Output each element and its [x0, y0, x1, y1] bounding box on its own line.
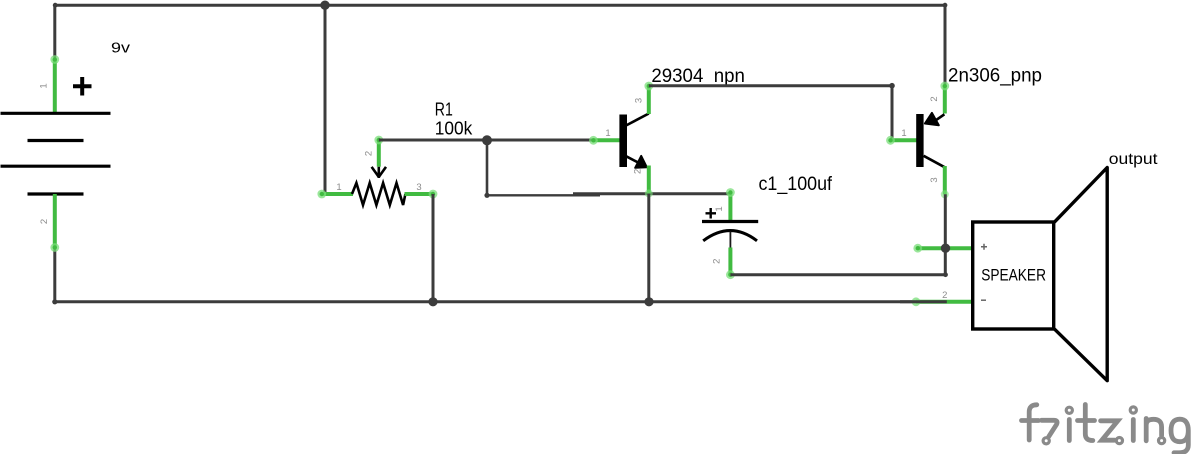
Q2 base pin 1 leg: [891, 138, 921, 142]
Q2 top diagonal: [934, 114, 944, 121]
speaker box: [973, 222, 1054, 329]
battery plate short bottom: [28, 192, 84, 195]
logo letter r: [1042, 420, 1058, 436]
battery pin 2 leg: [53, 194, 57, 248]
wire battery pin1 to top rail: [53, 5, 56, 59]
logo letter z: [1101, 421, 1118, 440]
Q1 base pin 1 leg: [593, 138, 624, 142]
capacitor C1 c1_100uf: [702, 174, 833, 279]
R1 wiper pin 2 leg: [377, 140, 381, 167]
svg-text:R1: R1: [435, 100, 453, 120]
wire R1 pin1 vertical from top rail: [324, 5, 327, 194]
svg-text:1: 1: [605, 128, 610, 139]
R1 wiper arrow: [372, 167, 386, 178]
svg-text:3: 3: [634, 98, 645, 103]
wire R1 pin3 to bottom rail: [432, 194, 435, 302]
wire Q1 collector to Q2 base (horizontal): [649, 84, 892, 87]
wire Q2 base vertical: [891, 86, 894, 141]
battery plate short: [28, 139, 84, 142]
logo letter z ring: [1116, 438, 1122, 444]
wire Q1 emitter down to bottom rail: [647, 194, 650, 302]
node wire end: [484, 193, 489, 198]
speaker minus sign: [981, 299, 986, 301]
junction bottom rail R1 pin3: [428, 297, 437, 306]
node top-left corner: [53, 3, 58, 8]
C1 pin 1 leg: [728, 192, 732, 222]
battery plus sign: [73, 77, 92, 96]
svg-text:1: 1: [714, 206, 725, 211]
speaker horn: [1054, 168, 1107, 381]
battery plate long top: [1, 112, 111, 115]
Q1 emitter diagonal: [626, 156, 640, 163]
logo letter g: [1171, 419, 1188, 453]
logo letter i stem 1: [1067, 420, 1072, 441]
Q1 base bar: [619, 115, 627, 168]
wire C1 pin2 to speaker node: [730, 273, 945, 276]
wire Q2 pin3 down to speaker plus node: [944, 194, 947, 274]
logo letter i stem 2: [1131, 420, 1136, 441]
wire emitter column to C1 pin1: [573, 192, 730, 195]
logo letter r ring: [1043, 438, 1049, 444]
wire R1 wiper to Q1 base: [379, 139, 593, 142]
battery BT1 9v: [1, 40, 131, 252]
node corner collector wire: [889, 83, 895, 89]
Q2 bottom diagonal: [924, 156, 945, 168]
speaker pin + leg: [918, 246, 973, 250]
svg-text:2: 2: [942, 290, 947, 301]
svg-text:3: 3: [929, 177, 940, 182]
speaker plus sign: [981, 244, 987, 250]
Q1 emitter arrowhead: [635, 156, 647, 168]
R1 pin 3 leg: [405, 192, 434, 196]
wire bottom rail overlap: [900, 300, 947, 303]
svg-text:9v: 9v: [111, 40, 131, 56]
svg-text:2: 2: [633, 169, 644, 174]
wire top rail down to Q2 pin2: [944, 5, 947, 86]
fritzing logo: [1022, 405, 1189, 453]
transistor Q2 2n306_pnp: [886, 66, 1042, 199]
R1 zigzag body: [352, 183, 405, 205]
svg-text:3: 3: [416, 182, 421, 193]
Q2 emitter arrowhead: [925, 113, 939, 125]
svg-text:2: 2: [712, 259, 723, 264]
wire node to emitter column: [487, 194, 600, 196]
wire battery pin2 to bottom rail: [53, 248, 56, 302]
logo letter i dot 2: [1130, 407, 1136, 413]
node bottom-left corner: [52, 299, 57, 304]
battery plate long bottom: [1, 165, 111, 168]
svg-text:2: 2: [39, 219, 50, 224]
logo letter n ring: [1159, 438, 1165, 444]
wire base node down: [486, 140, 489, 195]
junction bottom rail Q1 emitter: [644, 297, 653, 306]
Q1 collector pin 3 leg: [647, 86, 651, 114]
junction base node: [482, 135, 492, 145]
Q2 pin 3 leg (bottom): [943, 166, 947, 194]
logo letter t: [1078, 405, 1095, 441]
R1 pin 1 leg: [322, 192, 353, 196]
svg-text:1: 1: [901, 128, 906, 139]
svg-text:2: 2: [364, 151, 375, 156]
svg-text:29304_npn: 29304_npn: [651, 66, 745, 87]
Q1 emitter pin 2 leg: [647, 166, 651, 194]
junction speaker plus node: [941, 244, 950, 253]
potentiometer R1 100k: [317, 100, 473, 205]
C1 curved bottom plate: [703, 231, 757, 241]
logo letter n: [1146, 419, 1161, 441]
svg-text:2n306_pnp: 2n306_pnp: [948, 66, 1042, 87]
Q2 base bar: [916, 114, 923, 167]
logo letter f: [1022, 405, 1039, 440]
junction top rail to R1: [320, 1, 329, 10]
svg-text:output: output: [1109, 151, 1158, 168]
C1 pin 2 leg: [728, 248, 732, 275]
svg-text:100k: 100k: [435, 118, 473, 138]
C1 top plate: [702, 220, 758, 223]
C1 stem: [729, 232, 731, 248]
svg-text:c1_100uf: c1_100uf: [759, 174, 833, 195]
logo letter i dot 1: [1066, 407, 1072, 413]
Q2 pin 2 leg (top): [943, 86, 947, 114]
svg-text:2: 2: [929, 96, 940, 101]
C1 polarity plus: [706, 208, 717, 219]
node top-right corner: [943, 3, 948, 8]
wire top rail: [55, 4, 945, 7]
speaker SPK1: [900, 151, 1158, 381]
transistor Q1 29304_npn: [589, 66, 745, 198]
svg-text:1: 1: [39, 83, 50, 88]
node wire end at speaker column: [943, 272, 948, 277]
svg-text:1: 1: [336, 182, 341, 193]
svg-text:SPEAKER: SPEAKER: [981, 267, 1046, 285]
battery pin 1 leg: [53, 60, 57, 114]
speaker pin - leg: [916, 300, 973, 304]
Q1 collector diagonal: [626, 114, 649, 126]
wire bottom rail: [55, 300, 947, 303]
